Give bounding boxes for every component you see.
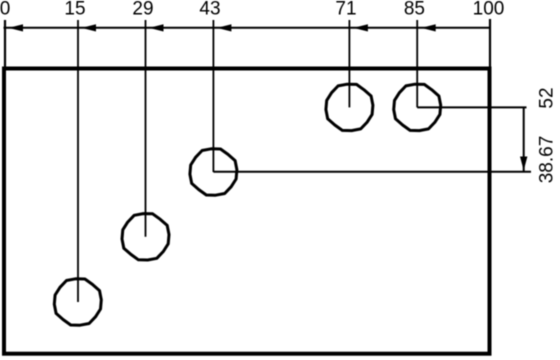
svg-text:52: 52 [537,87,558,108]
svg-text:43: 43 [199,0,220,20]
svg-text:15: 15 [64,0,85,20]
svg-text:0: 0 [0,0,10,20]
svg-text:38.67: 38.67 [537,136,558,184]
svg-text:71: 71 [335,0,356,20]
svg-text:100: 100 [473,0,505,20]
svg-text:29: 29 [132,0,153,20]
svg-text:85: 85 [404,0,425,20]
